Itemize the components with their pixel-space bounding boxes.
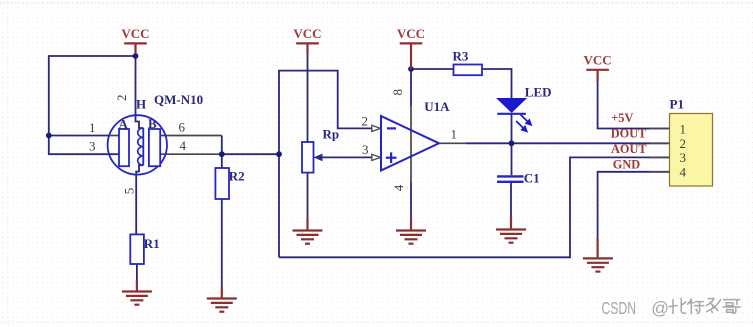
- svg-text:C1: C1: [524, 171, 540, 186]
- svg-text:@: @: [651, 298, 669, 318]
- svg-text:LED: LED: [525, 85, 552, 100]
- svg-text:2: 2: [680, 136, 687, 151]
- svg-text:2: 2: [362, 113, 369, 128]
- svg-text:CSDN: CSDN: [602, 298, 637, 318]
- svg-text:5: 5: [122, 188, 137, 195]
- svg-text:6: 6: [179, 120, 186, 135]
- svg-text:QM-N10: QM-N10: [154, 92, 203, 107]
- svg-text:3: 3: [680, 150, 687, 165]
- svg-text:B: B: [148, 116, 157, 131]
- svg-text:A: A: [119, 117, 129, 132]
- svg-text:VCC: VCC: [397, 26, 425, 41]
- svg-text:GND: GND: [613, 157, 640, 171]
- svg-text:Rp: Rp: [323, 127, 340, 142]
- svg-text:8: 8: [390, 89, 405, 96]
- svg-text:DOUT: DOUT: [611, 126, 647, 140]
- svg-text:U1A: U1A: [424, 99, 450, 114]
- svg-text:4: 4: [391, 184, 406, 191]
- svg-text:+5V: +5V: [611, 111, 633, 125]
- svg-text:AOUT: AOUT: [611, 142, 647, 156]
- svg-text:R1: R1: [144, 236, 160, 251]
- svg-text:R2: R2: [229, 169, 245, 184]
- svg-text:R3: R3: [453, 49, 469, 64]
- svg-text:P1: P1: [670, 97, 684, 112]
- svg-text:VCC: VCC: [293, 26, 321, 41]
- svg-text:H: H: [136, 97, 146, 112]
- svg-text:3: 3: [362, 142, 369, 157]
- svg-text:4: 4: [180, 138, 187, 153]
- svg-text:VCC: VCC: [584, 53, 612, 68]
- svg-text:1: 1: [680, 121, 687, 136]
- svg-text:VCC: VCC: [121, 26, 149, 41]
- svg-text:3: 3: [89, 139, 96, 154]
- svg-text:4: 4: [680, 164, 687, 179]
- svg-text:1: 1: [89, 120, 96, 135]
- svg-text:1: 1: [451, 127, 458, 142]
- svg-text:2: 2: [114, 94, 129, 101]
